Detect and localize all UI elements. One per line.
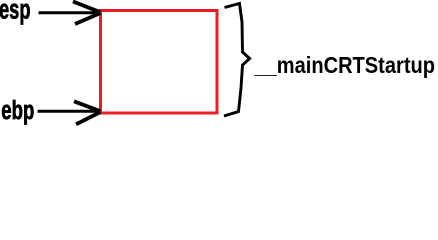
svg-text:esp: esp — [0, 0, 31, 25]
svg-text:ebp: ebp — [1, 97, 34, 125]
svg-text:__mainCRTStartup: __mainCRTStartup — [254, 52, 435, 78]
